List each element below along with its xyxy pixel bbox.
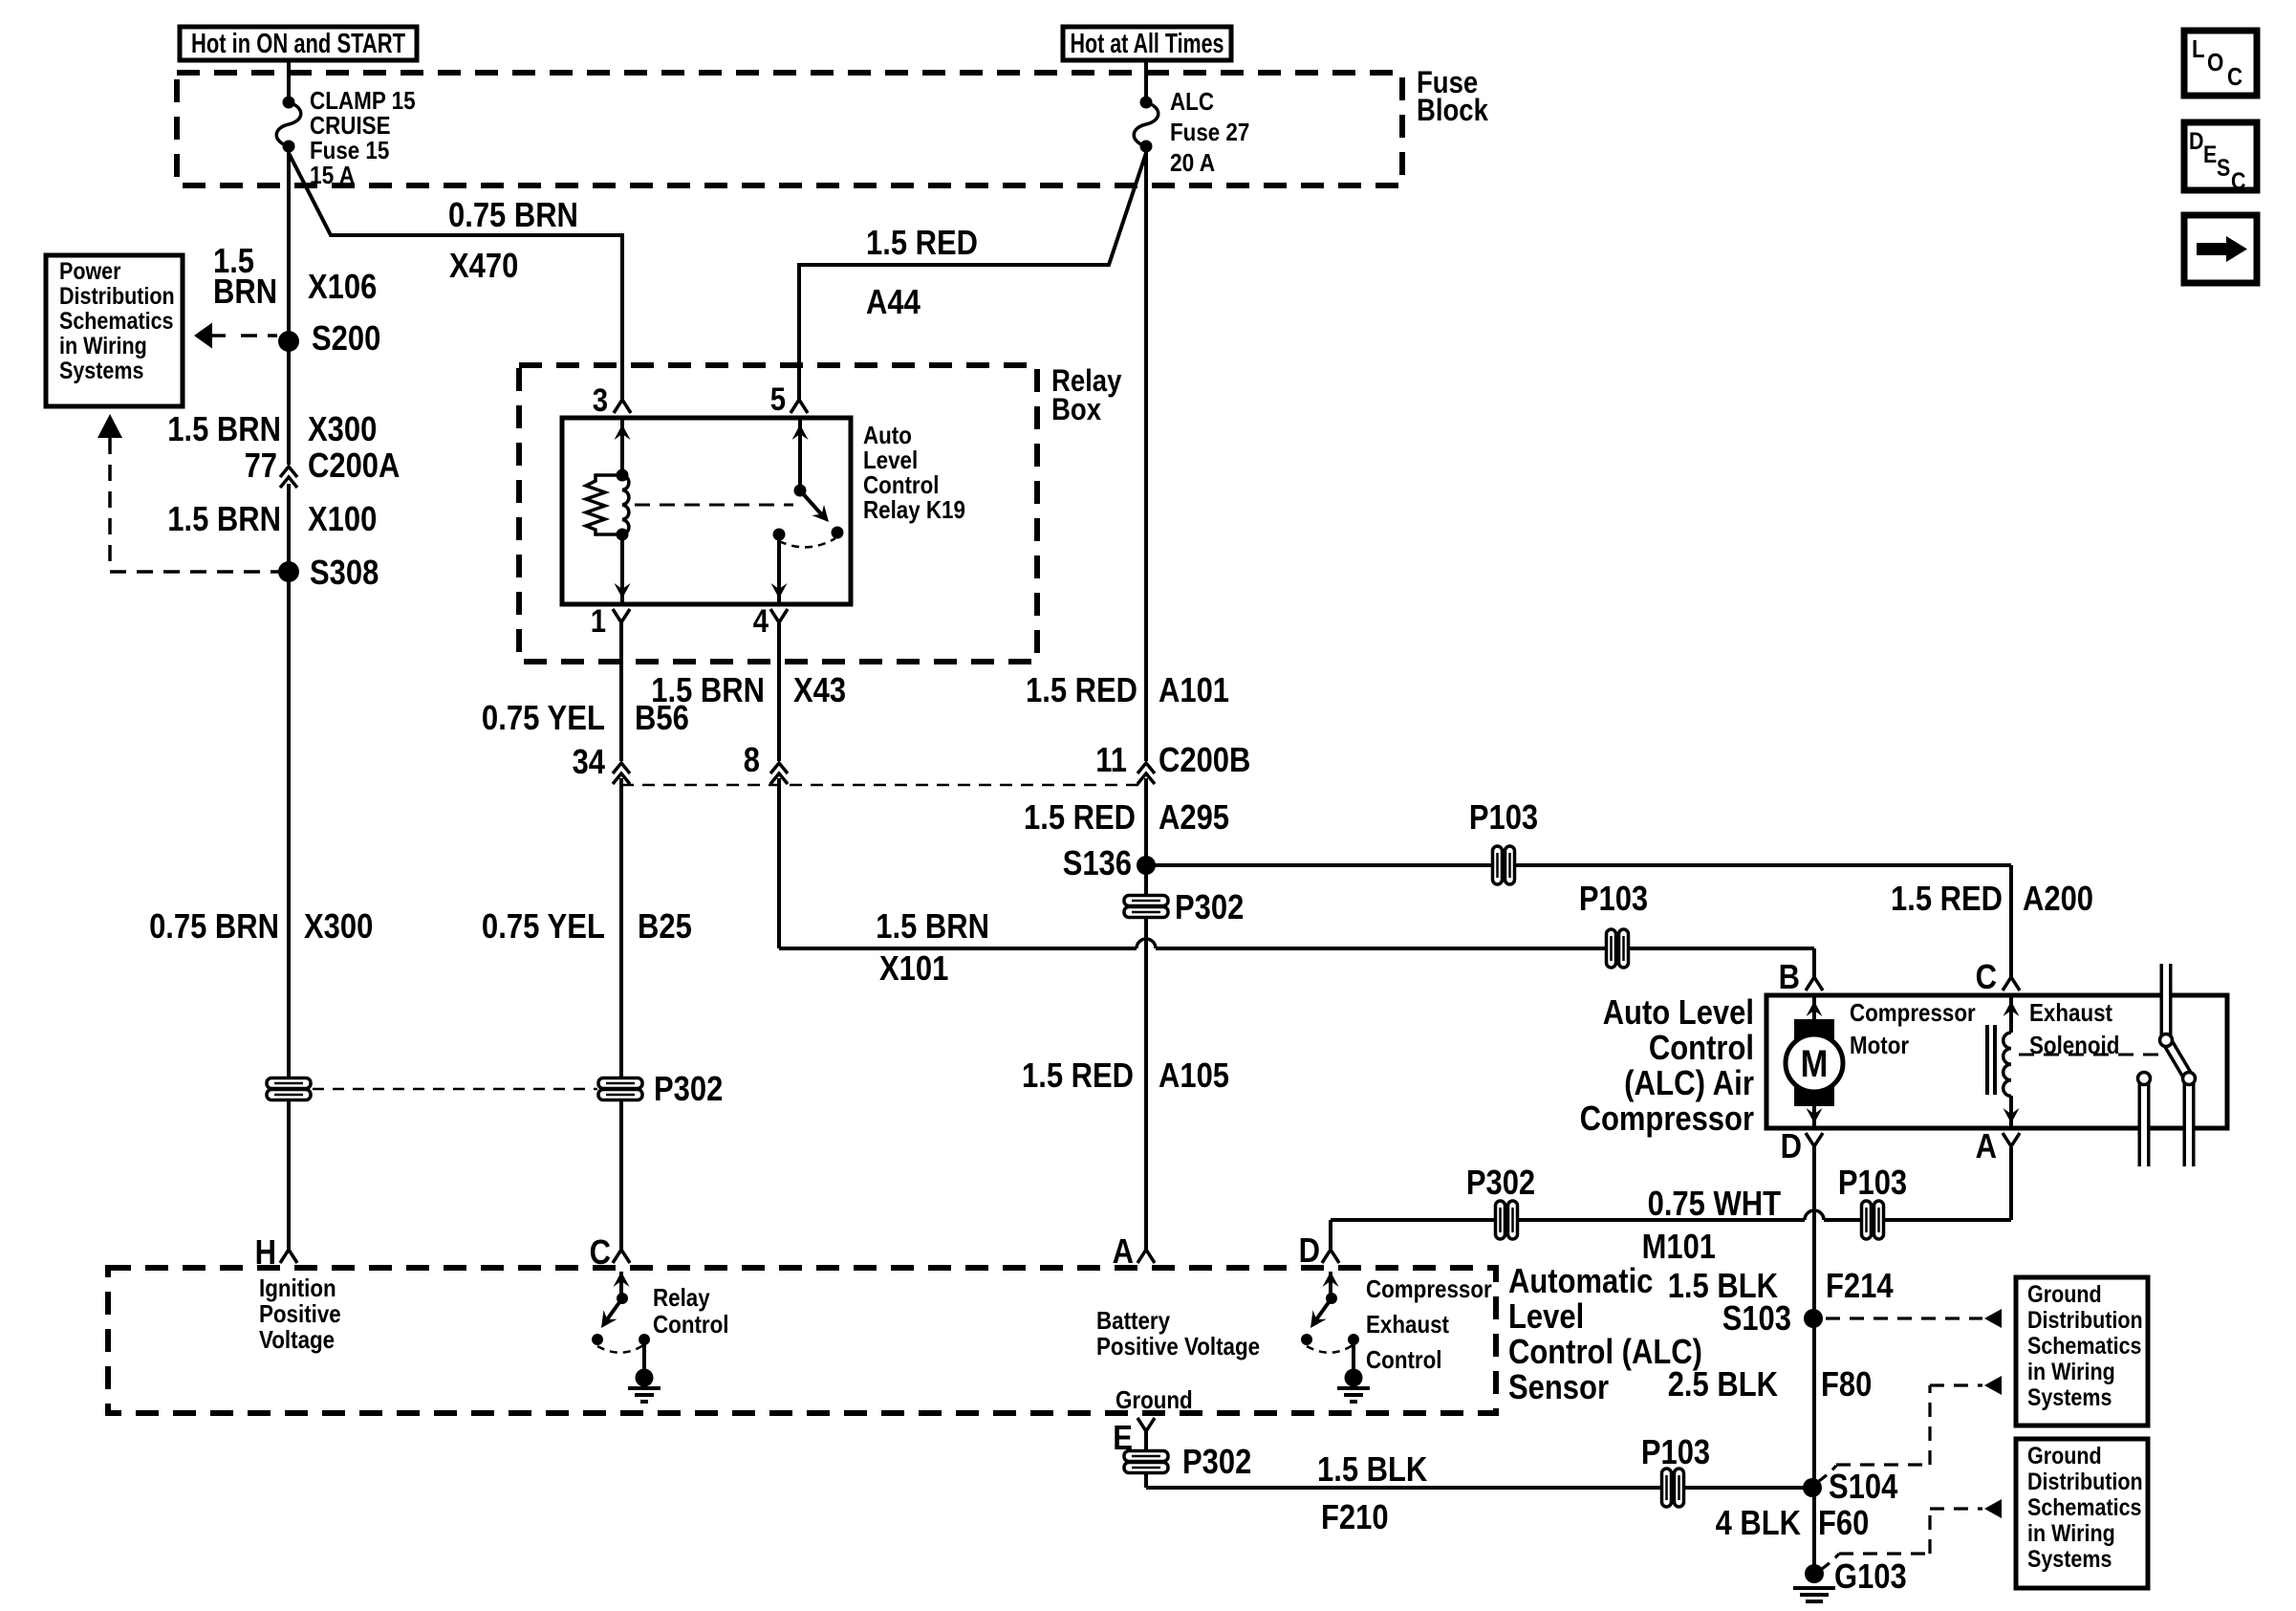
- svg-text:Distribution: Distribution: [2027, 1469, 2143, 1495]
- svg-text:Auto Level: Auto Level: [1603, 992, 1754, 1032]
- svg-text:Distribution: Distribution: [59, 283, 175, 310]
- svg-text:1: 1: [591, 603, 606, 640]
- svg-text:Automatic: Automatic: [1508, 1261, 1653, 1300]
- svg-text:X470: X470: [449, 246, 518, 285]
- svg-text:20 A: 20 A: [1170, 148, 1215, 177]
- svg-text:(ALC) Air: (ALC) Air: [1624, 1063, 1754, 1102]
- svg-text:O: O: [2207, 48, 2223, 76]
- svg-text:S104: S104: [1829, 1467, 1897, 1506]
- svg-text:X43: X43: [793, 670, 846, 709]
- svg-text:Schematics: Schematics: [59, 308, 174, 335]
- svg-text:X106: X106: [308, 267, 377, 306]
- svg-text:Ground: Ground: [2027, 1281, 2102, 1308]
- svg-text:Box: Box: [1051, 392, 1101, 426]
- svg-text:4: 4: [753, 603, 769, 640]
- svg-text:0.75 YEL: 0.75 YEL: [482, 906, 605, 946]
- svg-text:in Wiring: in Wiring: [59, 333, 147, 359]
- svg-text:X100: X100: [308, 499, 377, 538]
- svg-text:Motor: Motor: [1850, 1031, 1909, 1059]
- svg-text:Exhaust: Exhaust: [1366, 1310, 1449, 1339]
- svg-text:Battery: Battery: [1096, 1306, 1170, 1335]
- svg-text:S200: S200: [312, 318, 380, 358]
- svg-text:X101: X101: [879, 948, 948, 988]
- svg-text:E: E: [2203, 142, 2217, 168]
- svg-text:Schematics: Schematics: [2027, 1333, 2142, 1360]
- svg-text:B56: B56: [635, 698, 689, 737]
- svg-text:Level: Level: [1508, 1296, 1584, 1336]
- svg-text:B25: B25: [638, 906, 692, 946]
- svg-text:S: S: [2217, 155, 2230, 182]
- svg-text:Systems: Systems: [2027, 1546, 2112, 1573]
- svg-text:C: C: [2227, 62, 2242, 91]
- svg-text:F214: F214: [1826, 1266, 1894, 1305]
- svg-text:P103: P103: [1838, 1163, 1907, 1202]
- svg-text:Relay K19: Relay K19: [863, 495, 965, 524]
- svg-text:S136: S136: [1063, 843, 1132, 882]
- svg-text:in Wiring: in Wiring: [2027, 1359, 2115, 1385]
- svg-text:Sensor: Sensor: [1508, 1367, 1609, 1406]
- svg-text:1.5 BRN: 1.5 BRN: [876, 906, 989, 946]
- svg-text:1.5 BLK: 1.5 BLK: [1317, 1449, 1427, 1489]
- svg-text:Compressor: Compressor: [1850, 998, 1976, 1027]
- svg-text:Distribution: Distribution: [2027, 1307, 2143, 1334]
- svg-text:P302: P302: [1175, 887, 1244, 926]
- svg-text:Hot in ON and START: Hot in ON and START: [191, 29, 405, 59]
- svg-text:P103: P103: [1579, 879, 1648, 918]
- svg-text:X300: X300: [308, 409, 377, 448]
- svg-text:1.5 BRN: 1.5 BRN: [167, 409, 281, 448]
- svg-text:B: B: [1779, 957, 1800, 996]
- svg-text:D: D: [1781, 1126, 1802, 1165]
- svg-text:8: 8: [744, 740, 760, 779]
- svg-text:E: E: [1113, 1418, 1133, 1457]
- svg-text:77: 77: [245, 446, 277, 485]
- svg-text:X300: X300: [304, 906, 373, 946]
- svg-text:S308: S308: [310, 553, 379, 592]
- svg-text:P302: P302: [1182, 1442, 1251, 1481]
- svg-text:Relay: Relay: [653, 1283, 710, 1312]
- svg-text:H: H: [255, 1232, 276, 1272]
- svg-text:Schematics: Schematics: [2027, 1494, 2142, 1521]
- svg-text:0.75 BRN: 0.75 BRN: [149, 906, 279, 946]
- svg-text:2.5 BLK: 2.5 BLK: [1668, 1364, 1778, 1404]
- svg-text:C200B: C200B: [1159, 740, 1250, 779]
- svg-text:Exhaust: Exhaust: [2029, 998, 2112, 1027]
- svg-text:1.5 RED: 1.5 RED: [866, 223, 978, 262]
- svg-text:S103: S103: [1722, 1298, 1791, 1338]
- svg-text:C: C: [590, 1232, 611, 1272]
- svg-text:ALC: ALC: [1170, 87, 1214, 116]
- svg-text:0.75 BRN: 0.75 BRN: [448, 195, 578, 234]
- svg-text:A200: A200: [2023, 879, 2093, 918]
- svg-text:BRN: BRN: [213, 272, 277, 311]
- svg-text:11: 11: [1095, 740, 1127, 779]
- svg-text:M101: M101: [1642, 1227, 1716, 1266]
- svg-text:A: A: [1976, 1126, 1997, 1165]
- svg-text:C200A: C200A: [308, 446, 400, 485]
- svg-text:Ground: Ground: [2027, 1443, 2102, 1469]
- svg-text:Systems: Systems: [59, 358, 143, 384]
- svg-text:Systems: Systems: [2027, 1384, 2112, 1411]
- svg-text:1.5 BRN: 1.5 BRN: [167, 499, 281, 538]
- svg-text:Hot at All Times: Hot at All Times: [1071, 29, 1224, 59]
- svg-text:Positive: Positive: [259, 1299, 341, 1328]
- svg-text:Control: Control: [1366, 1345, 1442, 1374]
- svg-text:C: C: [2231, 168, 2246, 195]
- svg-text:Fuse 27: Fuse 27: [1170, 118, 1249, 146]
- svg-text:34: 34: [573, 742, 605, 781]
- svg-text:D: D: [2189, 128, 2204, 155]
- svg-text:Control: Control: [653, 1310, 729, 1339]
- svg-text:A295: A295: [1159, 797, 1229, 837]
- svg-text:P302: P302: [1466, 1163, 1535, 1202]
- svg-text:L: L: [2192, 34, 2205, 63]
- svg-text:Block: Block: [1417, 93, 1488, 127]
- svg-text:Compressor: Compressor: [1580, 1099, 1754, 1138]
- svg-text:A: A: [1113, 1231, 1134, 1271]
- svg-text:3: 3: [593, 382, 608, 419]
- svg-text:F210: F210: [1321, 1497, 1389, 1536]
- svg-text:0.75 YEL: 0.75 YEL: [482, 698, 605, 737]
- svg-text:1.5 RED: 1.5 RED: [1891, 879, 2003, 918]
- svg-text:Voltage: Voltage: [259, 1325, 335, 1354]
- svg-text:D: D: [1299, 1230, 1320, 1270]
- svg-text:C: C: [1976, 957, 1997, 996]
- svg-text:P103: P103: [1469, 797, 1538, 837]
- svg-text:1.5 RED: 1.5 RED: [1022, 1056, 1134, 1095]
- svg-text:0.75 WHT: 0.75 WHT: [1648, 1184, 1781, 1223]
- svg-text:4 BLK: 4 BLK: [1716, 1503, 1801, 1542]
- svg-text:A101: A101: [1159, 670, 1229, 709]
- svg-text:5: 5: [770, 381, 786, 418]
- svg-text:Compressor: Compressor: [1366, 1274, 1492, 1303]
- svg-text:1.5 RED: 1.5 RED: [1024, 797, 1136, 837]
- svg-text:Power: Power: [59, 258, 121, 285]
- svg-text:F80: F80: [1821, 1364, 1872, 1404]
- svg-text:in Wiring: in Wiring: [2027, 1520, 2115, 1547]
- svg-text:P302: P302: [654, 1069, 723, 1108]
- svg-text:Positive Voltage: Positive Voltage: [1096, 1332, 1260, 1361]
- svg-text:1.5 RED: 1.5 RED: [1026, 670, 1137, 709]
- svg-text:15 A: 15 A: [310, 161, 355, 189]
- svg-text:A44: A44: [866, 282, 921, 321]
- svg-text:M: M: [1801, 1043, 1829, 1085]
- svg-text:A105: A105: [1159, 1056, 1229, 1095]
- svg-text:P103: P103: [1641, 1432, 1710, 1471]
- svg-text:Solenoid: Solenoid: [2029, 1031, 2119, 1059]
- svg-text:Ground: Ground: [1116, 1385, 1193, 1414]
- svg-text:G103: G103: [1834, 1557, 1907, 1596]
- svg-text:Ignition: Ignition: [259, 1274, 336, 1302]
- svg-text:Control: Control: [1649, 1028, 1754, 1067]
- svg-text:F60: F60: [1818, 1503, 1869, 1542]
